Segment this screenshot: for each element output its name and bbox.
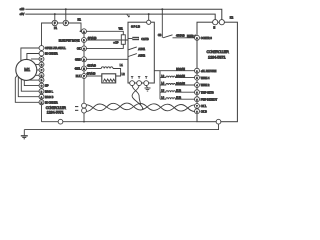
svg-text:AUX1: AUX1 bbox=[138, 47, 145, 51]
wire: J2-2 into SP1B box bbox=[86, 39, 128, 41]
pin tick b bbox=[138, 77, 140, 79]
svg-text:F1: F1 bbox=[54, 26, 58, 30]
wire: J2-4 into SP1B box bbox=[86, 58, 128, 60]
svg-text:CONTROLLER: CONTROLLER bbox=[46, 106, 67, 110]
node: junction dot rail1 at F2 tap bbox=[65, 8, 67, 10]
wire: motor lead to P1 pin 2 bbox=[27, 54, 39, 60]
inductor L3 bbox=[160, 76, 195, 78]
svg-text:1234-5071: 1234-5071 bbox=[47, 111, 64, 115]
wire: F2 drop from rail1 bbox=[65, 9, 67, 20]
wire: ground stub bbox=[23, 130, 25, 136]
svg-text:HP: HP bbox=[45, 84, 49, 88]
node: dot rail1 at CB drop bbox=[161, 8, 163, 10]
wire: ground rail bbox=[24, 124, 218, 129]
wire: motor lead to P1 pin 5 bbox=[37, 69, 39, 71]
svg-text:MAG L: MAG L bbox=[45, 89, 54, 93]
svg-text:M1: M1 bbox=[24, 67, 31, 72]
svg-text:W1: W1 bbox=[119, 27, 124, 31]
terminal SP1B bottom c bbox=[144, 81, 149, 86]
svg-text:C1/7B: C1/7B bbox=[141, 37, 149, 41]
pin tick c bbox=[145, 77, 147, 79]
wire: motor bottom lead to P1 pin 9 bbox=[21, 79, 39, 91]
terminal P1-2 bbox=[39, 51, 44, 56]
wire: motor lead to P1 pin 1 bbox=[21, 48, 39, 61]
wire: motor bottom lead to P1 pin 11 bbox=[15, 75, 39, 102]
svg-text:WIRE 4: WIRE 4 bbox=[201, 77, 210, 80]
terminal P1-3 bbox=[39, 57, 44, 62]
wire: link F1-F2 bbox=[58, 22, 64, 24]
svg-text:1234-5871: 1234-5871 bbox=[208, 55, 226, 60]
wire: row to controller K3-2 bbox=[160, 70, 195, 72]
terminal P1-4 bbox=[39, 62, 44, 67]
svg-text:SP1B: SP1B bbox=[131, 24, 140, 28]
terminal F1 bbox=[52, 20, 57, 25]
label note B1 bbox=[75, 106, 78, 107]
svg-text:+2B: +2B bbox=[19, 7, 24, 11]
svg-text:RAGAN: RAGAN bbox=[176, 82, 185, 85]
svg-text:43YA/B: 43YA/B bbox=[87, 72, 96, 76]
svg-text:MAG B: MAG B bbox=[45, 95, 54, 99]
terminal P1-9 bbox=[39, 89, 44, 94]
svg-text:AUX2: AUX2 bbox=[138, 54, 145, 58]
wire: J2-1 to resistor W1 top bbox=[86, 31, 123, 35]
switch AUX2 blade bbox=[128, 54, 137, 57]
twisted pair harness strand b bbox=[86, 103, 194, 111]
terminal J2-3 bbox=[82, 46, 87, 51]
svg-text:OPEN JTA STALL: OPEN JTA STALL bbox=[45, 46, 66, 50]
terminal J2-4 bbox=[82, 57, 87, 62]
svg-text:IN ORDER: IN ORDER bbox=[45, 100, 58, 104]
connector J2 column spine bbox=[83, 29, 85, 122]
node: junction dot rail2 at fuse F1 tap bbox=[54, 13, 56, 15]
svg-text:KLR: KLR bbox=[176, 90, 181, 93]
svg-text:K1: K1 bbox=[78, 18, 82, 22]
svg-text:RAGAN: RAGAN bbox=[176, 75, 185, 78]
arrow mark at SP1B corner bbox=[127, 15, 130, 17]
svg-text:40YA/B: 40YA/B bbox=[176, 33, 185, 37]
fuse C1 lead bbox=[128, 38, 132, 40]
terminal K3-4 bbox=[195, 83, 200, 88]
terminal J2-2 bbox=[82, 38, 87, 43]
wire: F1 to left connector column bbox=[42, 23, 53, 46]
terminal K3-3 bbox=[195, 75, 200, 80]
svg-text:IN ORDER: IN ORDER bbox=[45, 52, 58, 56]
node: dot J2 at bottom bus bbox=[83, 121, 85, 123]
box SP1B bbox=[128, 22, 154, 83]
svg-text:L2: L2 bbox=[122, 72, 125, 76]
switch AUX1 blade bbox=[128, 47, 137, 50]
svg-text:+CP: +CP bbox=[113, 41, 119, 45]
terminal P1-7 bbox=[39, 78, 44, 83]
terminal SP1B supply on box top bbox=[147, 20, 151, 24]
svg-text:40YA/B: 40YA/B bbox=[88, 36, 97, 40]
wire: J2-5 to inductor L1 bbox=[86, 68, 101, 70]
svg-text:+KL RETURN: +KL RETURN bbox=[201, 70, 217, 73]
switch CB blade bbox=[163, 35, 173, 38]
svg-text:CONTROLLER: CONTROLLER bbox=[206, 49, 229, 54]
controller box right bbox=[197, 22, 237, 122]
svg-text:WIRE 2: WIRE 2 bbox=[201, 84, 210, 87]
svg-text:OK L: OK L bbox=[201, 105, 207, 108]
terminal SP1B bottom a bbox=[130, 81, 135, 86]
terminal K2-A on top edge bbox=[213, 20, 218, 25]
svg-text:OK: OK bbox=[77, 47, 81, 50]
terminal P1-1 bbox=[39, 46, 44, 51]
terminal K2-B on top edge bbox=[219, 20, 224, 25]
twisted drop strand a bbox=[132, 86, 140, 104]
node: dot rail2 at SP1B supply bbox=[148, 13, 150, 15]
terminal P1-11 bbox=[39, 100, 44, 105]
terminal P1-6 bbox=[39, 73, 44, 78]
svg-text:42YA/B: 42YA/B bbox=[87, 63, 96, 67]
wire: CB to controller K3-1 bbox=[173, 37, 195, 39]
wire: L1 to filter L2 right pin bbox=[113, 69, 121, 77]
wire: +5V second rail bbox=[25, 14, 215, 20]
node: tap dot a bbox=[140, 103, 142, 105]
wire: SP1B to bus stub bbox=[154, 70, 160, 72]
terminal SP1B bottom b bbox=[137, 81, 142, 86]
wire: K1 from F2 down to plug column bbox=[69, 23, 82, 31]
svg-text:TRIP SETS: TRIP SETS bbox=[201, 91, 214, 94]
wire: +28V top rail bbox=[25, 9, 222, 19]
svg-text:K2: K2 bbox=[230, 16, 234, 20]
connector P1 column spine bbox=[41, 46, 43, 122]
node: tap dot b bbox=[142, 108, 144, 110]
svg-text:CONTR 3: CONTR 3 bbox=[201, 37, 213, 40]
svg-text:42KL: 42KL bbox=[75, 68, 81, 71]
terminal J2-8 twisted pair b bbox=[82, 108, 87, 113]
resistor W1 bbox=[121, 35, 125, 45]
svg-text:CB: CB bbox=[158, 34, 162, 37]
svg-text:BLK: BLK bbox=[76, 75, 81, 78]
bus: L-row feeder bbox=[159, 71, 161, 100]
wire: motor bottom lead to P1 pin 8 bbox=[24, 80, 39, 85]
svg-text:PWP DETECT: PWP DETECT bbox=[201, 98, 218, 101]
terminal F2 bbox=[63, 20, 68, 25]
inductor L1 bbox=[101, 67, 113, 69]
terminal P1-8 bbox=[39, 83, 44, 88]
terminal K3-6 bbox=[195, 97, 200, 102]
ground shield bbox=[145, 88, 151, 91]
svg-text:N: N bbox=[213, 26, 215, 29]
wire: motor bottom lead to P1 pin 10 bbox=[18, 77, 39, 97]
twisted drop strand b bbox=[132, 86, 143, 109]
wire: rail1 drop to breaker CB bbox=[161, 9, 163, 38]
terminal J2-1 bbox=[82, 29, 87, 34]
terminal bottom left bbox=[58, 119, 63, 124]
wire: motor lead to P1 pin 6 bbox=[35, 74, 39, 76]
filter choke L2 bbox=[102, 74, 116, 83]
motor M1 bbox=[16, 59, 37, 80]
ground symbol left bbox=[21, 136, 28, 139]
label note B2 bbox=[75, 110, 78, 111]
svg-text:+5V: +5V bbox=[19, 12, 24, 16]
wire: motor lead to P1 pin 4 bbox=[35, 64, 39, 66]
svg-text:OK B: OK B bbox=[201, 110, 207, 113]
terminal bottom right bbox=[216, 119, 221, 124]
terminal K3-8 bbox=[195, 109, 200, 114]
terminal K3-2 bbox=[195, 68, 200, 73]
terminal J2-5 bbox=[82, 66, 87, 71]
terminal K3-1 bbox=[195, 35, 200, 40]
wire: rail2 drop to SP1B terminal bbox=[148, 14, 150, 20]
svg-text:GRN: GRN bbox=[75, 59, 81, 62]
node: dot at J2-1 bbox=[80, 30, 82, 32]
wire: motor lead to P1 pin 3 bbox=[31, 58, 39, 60]
inductor L4 bbox=[160, 84, 195, 86]
terminal K3-7 bbox=[195, 104, 200, 109]
wire: resistor W1 bottom to J2-3 bbox=[86, 44, 123, 48]
wire: F1 drop from rail2 bbox=[54, 14, 56, 20]
wire: motor bottom lead to P1 pin 7 bbox=[29, 79, 39, 81]
terminal J2-6 bbox=[82, 74, 87, 79]
svg-text:BLUE PWT MOVE: BLUE PWT MOVE bbox=[59, 39, 80, 42]
terminal P1-5 bbox=[39, 68, 44, 73]
svg-text:L1: L1 bbox=[120, 63, 123, 67]
terminal J2-7 twisted pair a bbox=[82, 103, 87, 108]
svg-text:KLR: KLR bbox=[176, 97, 181, 100]
wire: J2-6 to filter L2 left pin bbox=[86, 75, 101, 77]
fuse C1 bbox=[132, 37, 139, 40]
inductor L5 bbox=[160, 91, 195, 93]
terminal K3-5 bbox=[195, 90, 200, 95]
wire: shield drop bbox=[146, 86, 147, 88]
twisted pair harness strand a bbox=[86, 103, 194, 111]
svg-text:RAGAN: RAGAN bbox=[176, 68, 185, 71]
wire: bottom return bus bbox=[42, 121, 198, 123]
inductor L6 bbox=[160, 98, 195, 100]
terminal P1-10 bbox=[39, 94, 44, 99]
pin tick a bbox=[131, 77, 133, 79]
